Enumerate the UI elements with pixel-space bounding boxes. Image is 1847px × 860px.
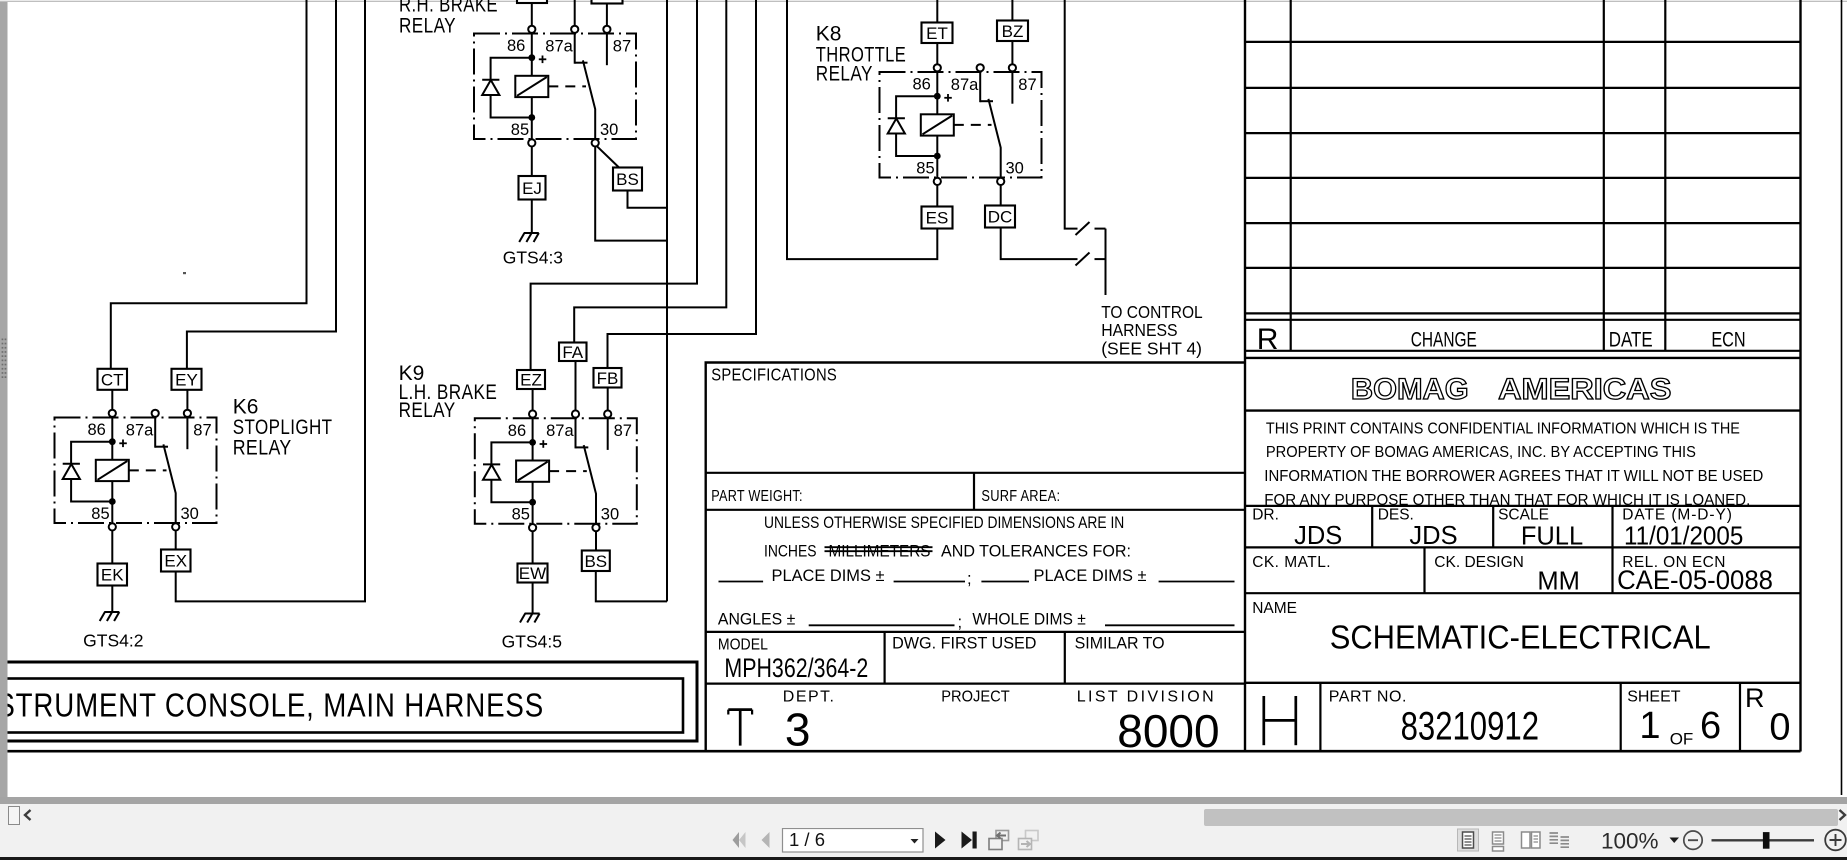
tolerance note line 1 (764, 514, 1124, 532)
label relay K8 THROTTLE RELAY (816, 23, 906, 86)
K6 coil (rectangle with diagonal) (96, 460, 129, 481)
wire: EY to K6 pin 87 (186, 390, 188, 410)
next page button (935, 832, 946, 849)
connector EZ (517, 370, 545, 390)
svg-text:SCHEMATIC-ELECTRICAL: SCHEMATIC-ELECTRICAL (1330, 620, 1711, 657)
connector box over K7 pin 86 (cut off at top) (517, 0, 547, 3)
wire: K6 pin 85 to EK (111, 531, 113, 564)
K7 suppression diode branch wire (491, 58, 532, 118)
svg-text:INSTRUMENT CONSOLE, MAIN HARNE: INSTRUMENT CONSOLE, MAIN HARNESS (0, 687, 544, 724)
label DEPT. (783, 689, 834, 706)
connector EJ (519, 176, 546, 200)
specifications box frame (706, 363, 1245, 752)
wire: ES return to top harness (787, 0, 937, 259)
connector BS (upper) (613, 168, 642, 191)
wire break mark (upper) (1076, 222, 1090, 235)
viewer separator bar (0, 797, 1847, 804)
label OF (1670, 730, 1694, 749)
K7 pin label 30 (600, 121, 618, 139)
value of 6 (1700, 705, 1721, 747)
K8 pin label 87a (951, 76, 979, 94)
svg-text:30: 30 (600, 121, 618, 139)
K6 polarity mark + (119, 440, 127, 448)
revision table row line y=313.4 (1245, 312, 1801, 314)
svg-text:BS: BS (616, 170, 639, 189)
wire: harness feed from EX (176, 0, 365, 601)
K6 pin 30 terminal circle (172, 523, 179, 530)
svg-text:83210912: 83210912 (1401, 705, 1539, 749)
toolbar icons svg (0, 828, 1847, 857)
svg-text:EZ: EZ (520, 371, 542, 390)
K8 pin 30 terminal circle (997, 178, 1004, 185)
stray ink speck (183, 272, 186, 274)
label DATE (M-D-Y) (1622, 507, 1732, 524)
svg-text:87: 87 (614, 422, 632, 440)
wire: vertical bus BS net (666, 0, 668, 601)
svg-text:JDS: JDS (1294, 522, 1342, 550)
svg-text:85: 85 (512, 506, 530, 524)
svg-text:CT: CT (101, 370, 124, 389)
horizontal scrollbar track (0, 804, 1847, 828)
connector CT (98, 369, 128, 390)
bottom row lines (1245, 683, 1801, 751)
K9 pin label 85 (512, 506, 530, 524)
label LIST DIVISION (1077, 689, 1214, 706)
K6 pin 85 terminal circle (109, 523, 116, 530)
svg-text:30: 30 (601, 506, 619, 524)
connector EK (98, 564, 128, 586)
K8 switch contact 87a stub (980, 71, 993, 102)
K7 pin label 87a (545, 38, 573, 56)
svg-text:87a: 87a (126, 422, 154, 440)
svg-text:ET: ET (926, 24, 948, 43)
svg-text:LIST DIVISION: LIST DIVISION (1077, 689, 1214, 706)
svg-text:86: 86 (88, 421, 106, 439)
label PART WEIGHT: (711, 488, 802, 505)
label NAME (1252, 600, 1297, 617)
wire: feed to ET (936, 0, 938, 23)
svg-text:MM: MM (1537, 567, 1579, 595)
ground GTS4:5 (520, 614, 540, 623)
scrollbar corner box (8, 806, 20, 825)
K6 pin 86 terminal circle (109, 410, 116, 417)
svg-text:R: R (1745, 683, 1765, 713)
bottom dark strip (0, 857, 1847, 860)
svg-text:SCALE: SCALE (1498, 507, 1549, 524)
wire: top box to K7 pin 86 (531, 3, 533, 26)
wire: feed to FB (608, 0, 757, 368)
K9 junction dot 86 (529, 439, 536, 446)
K8 pin label 87 (1018, 76, 1036, 94)
svg-text:ECN: ECN (1711, 329, 1745, 352)
revision table row line y=133.1 (1245, 132, 1801, 134)
K9 actuation dashed link (549, 470, 587, 472)
svg-text:86: 86 (913, 76, 931, 94)
label SCALE (1498, 507, 1549, 524)
svg-text:BS: BS (584, 552, 607, 571)
wire: EW to ground (532, 583, 534, 613)
drawing zone title box (outer) (0, 662, 697, 741)
value sheet 1 (1639, 705, 1660, 747)
K7 pin 87 terminal circle (603, 26, 610, 33)
svg-text:0: 0 (1769, 707, 1790, 749)
title INSTRUMENT CONSOLE, MAIN HARNESS (0, 687, 544, 724)
K8 pin 87 terminal circle (1009, 64, 1016, 71)
K7 junction dot 85 (528, 114, 535, 121)
label MODEL (718, 637, 768, 654)
K9 coil feed wire 86-85 (532, 417, 534, 523)
revision table double separator (1245, 319, 1801, 321)
single page view button (active) (1458, 829, 1479, 851)
wire: harness feed to CT (111, 0, 307, 369)
revision table row line y=41.9 (1245, 41, 1801, 43)
title block right border (1799, 0, 1801, 752)
value dept 3 (785, 704, 811, 756)
K6 actuation dashed link (129, 469, 167, 471)
svg-text:87a: 87a (546, 422, 574, 440)
K8 junction dot 85 (934, 153, 941, 160)
label PART NO. (1329, 689, 1407, 706)
K7 coil (rectangle with diagonal) (515, 76, 548, 97)
K8 pin label 85 (916, 160, 934, 178)
svg-text:85: 85 (91, 505, 109, 523)
zoom out button (1684, 831, 1702, 849)
K9 pin 87a terminal circle (572, 410, 579, 417)
svg-text:INCHES: INCHES (764, 543, 817, 561)
svg-text:FULL: FULL (1521, 523, 1583, 551)
wire: K9 pin 30 to BS (595, 531, 597, 550)
svg-text:HARNESS: HARNESS (1101, 320, 1177, 340)
svg-text:DATE (M-D-Y): DATE (M-D-Y) (1622, 507, 1732, 524)
K8 suppression diode branch wire (896, 96, 937, 156)
K6 pin 87 terminal circle (184, 410, 191, 417)
label REL. ON ECN (1622, 554, 1725, 571)
connector FA (559, 343, 587, 362)
wire: EJ to ground (531, 200, 533, 233)
wire: harness feed to EY (187, 0, 336, 369)
connector EX (161, 550, 191, 572)
wire: K7 pin 85 to EJ (531, 146, 533, 176)
K8 pin label 30 (1006, 160, 1024, 178)
drawing zone title box (inner) (0, 679, 683, 733)
K6 diode D (cathode bar + triangle) (63, 464, 80, 479)
relay K9 outline (dash-dot enclosure) (475, 418, 637, 524)
revision table column DATE (1603, 0, 1605, 351)
zoom level 100% (1601, 829, 1659, 854)
facing continuous view button (1550, 833, 1570, 847)
value drawn JDS (1294, 522, 1342, 550)
revision table row line y=267.9 (1245, 267, 1801, 269)
value CAE-05-0088 (1617, 565, 1773, 595)
wire: K6 pin 30 to EX (175, 531, 177, 550)
K7 pin 87a terminal circle (571, 26, 578, 33)
svg-text:PROJECT: PROJECT (941, 689, 1010, 706)
K9 polarity mark + (540, 440, 548, 448)
wire: EK to ground (111, 586, 113, 612)
svg-text:OF: OF (1670, 730, 1694, 749)
svg-text:PLACE DIMS ±: PLACE DIMS ± (1034, 567, 1147, 585)
svg-text:8000: 8000 (1117, 705, 1219, 757)
svg-text:RELAY: RELAY (816, 63, 873, 86)
K6 pin label 87a (126, 422, 154, 440)
svg-text:RELAY: RELAY (233, 437, 292, 460)
svg-text:EJ: EJ (522, 179, 542, 198)
place-dims blank line row (719, 567, 1235, 588)
value part number 83210912 (1401, 705, 1539, 749)
connector BS (lower) (582, 551, 610, 572)
part weight row lines (706, 473, 1245, 510)
value checked MM (1537, 567, 1579, 595)
svg-text:TO CONTROL: TO CONTROL (1101, 302, 1203, 322)
svg-text:6: 6 (1700, 705, 1721, 747)
label R (revision) (1745, 683, 1765, 713)
value MPH362/364-2 (724, 653, 868, 683)
svg-text:CK. MATL.: CK. MATL. (1252, 554, 1330, 571)
scrollbar right arrow (1837, 808, 1847, 822)
K7 polarity mark + (539, 56, 547, 64)
revision table row line y=177.9 (1245, 177, 1801, 179)
svg-text:1: 1 (1639, 705, 1660, 747)
svg-text:CAE-05-0088: CAE-05-0088 (1617, 565, 1773, 595)
K7 pin 85 terminal circle (528, 139, 535, 146)
svg-text:3: 3 (785, 704, 811, 756)
K9 switch contact 87 stub (607, 417, 609, 450)
wire: bus feed to EZ (531, 0, 697, 370)
relay K6 outline (dash-dot enclosure) (55, 418, 217, 524)
connector box over K7 pin 87 (cut off at top) (592, 0, 623, 4)
K7 switch contact 87 stub (606, 33, 608, 66)
dr/des/scale/date row lines (1245, 506, 1801, 548)
K9 pin 87 terminal circle (604, 410, 611, 417)
value scale FULL (1521, 523, 1583, 551)
svg-text:SURF AREA:: SURF AREA: (981, 488, 1060, 505)
K9 pin label 87a (546, 422, 574, 440)
K6 switch arm to pin 30 (163, 444, 175, 523)
svg-text:86: 86 (508, 422, 526, 440)
ground GTS4:3 (519, 233, 539, 242)
svg-text:87a: 87a (545, 38, 573, 56)
K8 pin 85 terminal circle (934, 178, 941, 185)
value revision 0 (1769, 707, 1790, 749)
wire: CT to K6 pin 86 (111, 390, 113, 410)
K9 switch arm to pin 30 (584, 445, 596, 523)
K7 pin 86 terminal circle (528, 26, 535, 33)
wire: FA to K9 pin 87a (575, 361, 577, 411)
K6 pin label 86 (88, 421, 106, 439)
svg-text:AND TOLERANCES FOR:: AND TOLERANCES FOR: (941, 543, 1131, 561)
svg-text:87: 87 (1018, 76, 1036, 94)
K9 pin 86 terminal circle (529, 410, 536, 417)
K8 coil (rectangle with diagonal) (921, 114, 954, 135)
wire: BS (upper) to bus (628, 191, 667, 208)
K9 diode D (cathode bar + triangle) (483, 464, 500, 479)
wire: BZ to K8 pin 87 (1011, 41, 1013, 65)
svg-text:SHEET: SHEET (1627, 689, 1681, 706)
wire: K8 pin 30 to DC (1000, 185, 1002, 206)
connector ET (922, 23, 953, 44)
K6 pin label 30 (181, 505, 199, 523)
wire: top box to K7 pin 87 (606, 4, 608, 27)
svg-text:R: R (1257, 323, 1279, 356)
net label GTS4:3 (503, 248, 563, 268)
wire: harness feed to control harness (with break) (1065, 0, 1106, 229)
svg-text:85: 85 (511, 121, 529, 139)
faint page top edge line (0, 1, 1847, 2)
ground GTS4:2 (100, 612, 120, 621)
K6 coil feed wire 86-85 (111, 417, 113, 523)
zone letter T (728, 710, 752, 746)
sheet right border (1841, 0, 1843, 795)
K8 pin 87a terminal circle (977, 64, 984, 71)
svg-text:87a: 87a (951, 76, 979, 94)
K8 polarity mark + (944, 94, 952, 102)
svg-text:87: 87 (193, 422, 211, 440)
svg-text:RELAY: RELAY (399, 15, 456, 38)
K6 junction dot 86 (109, 438, 116, 445)
svg-text:1 / 6: 1 / 6 (789, 829, 825, 850)
K6 pin label 85 (91, 505, 109, 523)
relay K8 outline (dash-dot enclosure) (880, 72, 1042, 178)
svg-text:K8: K8 (816, 23, 842, 46)
K8 switch arm to pin 30 (988, 99, 1000, 177)
K7 junction dot 86 (528, 54, 535, 61)
K6 switch contact 87 stub (186, 417, 188, 450)
zoom slider (1712, 832, 1815, 849)
svg-text:DWG. FIRST USED: DWG. FIRST USED (892, 635, 1036, 653)
svg-text:MPH362/364-2: MPH362/364-2 (724, 653, 868, 683)
relay K7 outline (dash-dot enclosure) (474, 34, 636, 140)
svg-text:INFORMATION THE BORROWER AGREE: INFORMATION THE BORROWER AGREES THAT IT … (1264, 468, 1763, 485)
revision table column ECN (1664, 0, 1666, 351)
svg-text:PART NO.: PART NO. (1329, 689, 1407, 706)
svg-text:86: 86 (507, 37, 525, 55)
first page button (disabled) (733, 832, 746, 848)
zoom dropdown caret (1670, 838, 1680, 844)
value list division 8000 (1117, 705, 1219, 757)
svg-text:87: 87 (613, 38, 631, 56)
company box top line (1245, 357, 1801, 359)
label CK. DESIGN (1434, 554, 1524, 571)
wire: EZ to K9 pin 86 (532, 389, 534, 411)
revision header bottom line (1245, 350, 1801, 352)
label relay K9 L.H. BRAKE RELAY (399, 362, 498, 422)
svg-text:EX: EX (164, 552, 187, 571)
svg-text:AMERICAS: AMERICAS (1498, 373, 1671, 406)
svg-text:PART WEIGHT:: PART WEIGHT: (711, 488, 802, 505)
connector EW (518, 564, 548, 584)
label relay R.H. BRAKE RELAY (399, 0, 498, 38)
connector FB (594, 368, 622, 388)
svg-text:FB: FB (597, 369, 619, 388)
svg-text:ANGLES ±: ANGLES ± (718, 611, 795, 629)
svg-text:30: 30 (181, 505, 199, 523)
previous page button (disabled) (762, 832, 770, 848)
svg-text:FA: FA (562, 343, 583, 362)
wire break mark (lower) (1076, 253, 1090, 266)
svg-text:CHANGE: CHANGE (1411, 329, 1477, 352)
K9 suppression diode branch wire (491, 442, 532, 502)
K8 coil feed wire 86-85 (936, 71, 938, 177)
revision header R (1257, 323, 1279, 356)
K8 actuation dashed link (954, 124, 992, 126)
K6 switch contact 87a stub (155, 417, 168, 448)
last page button (962, 832, 977, 849)
scrollbar thumb (1204, 809, 1838, 826)
K9 pin 85 terminal circle (529, 524, 536, 531)
svg-text:DATE: DATE (1609, 329, 1653, 352)
revision header CHANGE (1411, 329, 1477, 352)
connector BZ (997, 21, 1028, 42)
K6 suppression diode branch wire (71, 442, 112, 502)
svg-text:85: 85 (916, 160, 934, 178)
K9 coil (rectangle with diagonal) (516, 461, 549, 482)
label PROJECT (941, 689, 1010, 706)
wire: K7 pin 30 down to bus (595, 147, 666, 241)
wire: DC to control harness (with break) (1001, 228, 1106, 260)
svg-text:;: ; (967, 570, 972, 588)
label SPECIFICATIONS (711, 364, 837, 384)
K8 switch contact 87 stub (1011, 71, 1013, 104)
continuous view button (1493, 832, 1504, 851)
svg-text:EK: EK (101, 566, 124, 585)
label DR. (1252, 507, 1279, 524)
drawing name SCHEMATIC-ELECTRICAL (1330, 620, 1711, 657)
K9 pin label 87 (614, 422, 632, 440)
svg-text:THIS PRINT CONTAINS CONFIDENTI: THIS PRINT CONTAINS CONFIDENTIAL INFORMA… (1266, 421, 1740, 438)
K6 pin 87a terminal circle (152, 410, 159, 417)
svg-text:JDS: JDS (1409, 522, 1457, 550)
label CK. MATL. (1252, 554, 1330, 571)
K7 diode D (cathode bar + triangle) (482, 80, 499, 95)
tolerance note line 2 with struck MILLIMETERS (764, 543, 1131, 561)
label DES. (1378, 507, 1414, 524)
K7 switch arm to pin 30 (583, 60, 595, 138)
wire: K9 pin 85 to EW (532, 531, 534, 563)
confidentiality note (1264, 421, 1763, 509)
svg-text:BZ: BZ (1002, 22, 1024, 41)
svg-text:NAME: NAME (1252, 600, 1297, 617)
angles blank line row (718, 611, 1235, 632)
K9 pin label 86 (508, 422, 526, 440)
K7 pin 30 terminal circle (592, 139, 599, 146)
revision table row line y=223.1 (1245, 222, 1801, 224)
wire: feed to BZ (1011, 0, 1013, 21)
company name BOMAG AMERICAS (outline letters) (1351, 373, 1672, 406)
K7 coil feed wire 86-85 (531, 33, 533, 139)
svg-text:100%: 100% (1601, 829, 1659, 854)
K7 actuation dashed link (548, 85, 586, 87)
svg-text:11/01/2005: 11/01/2005 (1624, 523, 1743, 551)
net label GTS4:5 (502, 632, 562, 652)
scrollbar left arrow (22, 808, 34, 822)
value design JDS (1409, 522, 1457, 550)
net label GTS4:2 (83, 630, 143, 650)
K8 diode D (cathode bar + triangle) (888, 118, 905, 133)
wire: feed to K7 pin 87a (574, 0, 576, 26)
svg-text:RELAY: RELAY (399, 399, 456, 422)
label DWG. FIRST USED (892, 635, 1036, 653)
K9 pin label 30 (601, 506, 619, 524)
svg-text:BOMAG: BOMAG (1351, 373, 1469, 406)
zoom in button (1825, 830, 1846, 851)
wire: control harness stub (1105, 229, 1107, 295)
wire: K7 pin 30 diagonal to BS (597, 146, 620, 168)
ck row lines (1245, 547, 1801, 593)
K6 junction dot 85 (109, 498, 116, 505)
K6 pin label 87 (193, 422, 211, 440)
svg-text:GTS4:3: GTS4:3 (503, 248, 563, 268)
viewer left edge strip (0, 2, 8, 797)
